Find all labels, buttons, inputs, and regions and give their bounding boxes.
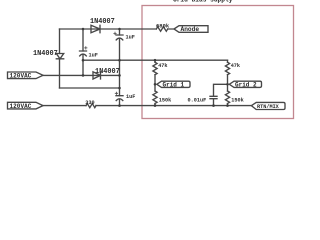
node grid1 [154, 83, 157, 86]
node lower return / C2 line [118, 87, 121, 90]
wire grid1 column [154, 60, 156, 105]
svg-text:47k: 47k [158, 63, 167, 69]
highlight box (red) [142, 6, 294, 119]
node bottom bus / 150k2 [226, 104, 229, 107]
svg-text:150k: 150k [231, 97, 243, 103]
connector RTN/MIX flag [251, 102, 285, 109]
connector Grid 1 flag [157, 81, 190, 87]
wire 120VAC bottom feed [43, 105, 251, 107]
svg-text:Grid bias supply: Grid bias supply [173, 0, 233, 3]
svg-text:1N4007: 1N4007 [95, 68, 120, 76]
resistor 150k #1 (vertical zigzag) [153, 91, 157, 104]
wire 120VAC top feed [43, 74, 120, 76]
wire C4 branch [214, 84, 228, 105]
node top bus / C1 [82, 28, 85, 31]
wire left vertical (to D1) [59, 29, 61, 88]
diode D3 1N4007 (AC feed, pointing right) [93, 72, 101, 79]
svg-text:1N4007: 1N4007 [90, 18, 115, 26]
node grid2 [226, 83, 229, 86]
resistor 330 (horizontal zigzag) [86, 104, 96, 108]
svg-text:47k: 47k [231, 63, 240, 69]
svg-text:150k: 150k [159, 97, 171, 103]
connector 120VAC #2 flag [8, 102, 44, 109]
resistor 680k (horizontal zigzag) [156, 27, 167, 31]
node C4 bottom [212, 104, 215, 107]
svg-text:RTN/MIX: RTN/MIX [257, 104, 280, 110]
node grids bus / C2 line [118, 59, 121, 62]
wire C2/C3 vertical [119, 29, 121, 106]
svg-text:Grid 2: Grid 2 [235, 81, 257, 88]
svg-text:680k: 680k [156, 23, 170, 30]
svg-text:1uF: 1uF [126, 94, 135, 100]
node bottom bus / C3 [118, 104, 121, 107]
connector Grid 2 flag [229, 81, 261, 87]
svg-text:1N4007: 1N4007 [33, 50, 58, 58]
diode D2 1N4007 (top bus, pointing right) [91, 25, 100, 32]
svg-text:120VAC: 120VAC [10, 103, 32, 110]
node AC feed / C2 line [118, 74, 121, 77]
wire grid2 column [227, 60, 229, 105]
resistor 150k #2 (vertical zigzag) [225, 91, 229, 104]
svg-text:330: 330 [85, 100, 94, 106]
node grids bus / 47k1 [154, 59, 157, 62]
polarity + C2 [114, 32, 116, 34]
svg-text:Grid 1: Grid 1 [163, 81, 185, 88]
svg-text:Anode: Anode [181, 26, 200, 33]
wire grids bus [83, 59, 228, 61]
svg-text:0.01uF: 0.01uF [188, 97, 207, 103]
wire C1 branch [82, 29, 84, 75]
node AC feed / C1 [82, 74, 85, 77]
wire top bus [60, 28, 175, 30]
capacitor C3 1uF (polarized) [116, 96, 123, 101]
connector 120VAC #1 flag [8, 72, 44, 79]
resistor 47k #1 (vertical zigzag) [153, 62, 157, 74]
node grids bus / C1 [82, 59, 85, 62]
svg-text:120VAC: 120VAC [10, 73, 32, 80]
svg-text:1uF: 1uF [126, 35, 135, 41]
capacitor C2 1uF (polarized) [116, 35, 123, 40]
wire lower return [60, 87, 120, 89]
connector Anode flag [174, 26, 208, 33]
capacitor C1 1uF (polarized) [80, 51, 87, 56]
resistor 47k #2 (vertical zigzag) [225, 62, 229, 74]
svg-text:1uF: 1uF [89, 53, 98, 59]
polarity + C3 [115, 92, 117, 94]
node bottom bus / 150k1 [154, 104, 157, 107]
node top bus / C2 [118, 28, 121, 31]
polarity + C1 [85, 47, 87, 49]
diode D1 1N4007 (vertical, pointing down) [56, 54, 63, 59]
capacitor C4 0.01uF [210, 96, 217, 98]
junction dots [82, 28, 229, 107]
